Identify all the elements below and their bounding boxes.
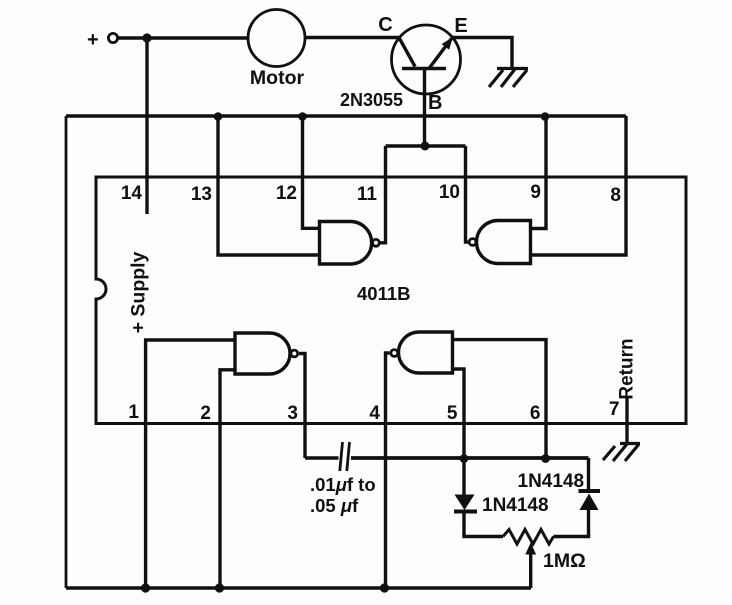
pin 8 lead	[531, 116, 627, 255]
pin 4 lead	[386, 353, 390, 588]
bubble U1a	[373, 239, 380, 246]
junction: base node	[421, 142, 430, 151]
potentiometer R1 resistive element	[503, 530, 554, 545]
junction: supply tap	[142, 33, 151, 42]
pin 13 lead	[218, 116, 320, 255]
+ terminal	[108, 33, 117, 42]
wire: potentiometer to D2	[554, 534, 589, 537]
pin 3 lead	[299, 354, 305, 459]
svg-text:+ Supply: + Supply	[128, 251, 150, 333]
svg-text:10: 10	[439, 182, 460, 203]
motor M1	[248, 10, 305, 67]
ground: pin 7 return	[603, 444, 640, 462]
svg-text:.05 μf: .05 μf	[310, 495, 359, 516]
pin 1 lead	[146, 340, 235, 588]
junction: bottom bus pin 1	[141, 583, 150, 592]
pin 11 lead	[381, 146, 386, 243]
pin 6 lead	[453, 340, 547, 459]
svg-text:3: 3	[287, 403, 298, 424]
NAND gate U1d (pins 5,6 -> 4) mirrored	[399, 332, 453, 373]
svg-text:1MΩ: 1MΩ	[543, 550, 586, 572]
svg-text:6: 6	[530, 403, 541, 424]
svg-text:11: 11	[357, 184, 378, 205]
svg-text:8: 8	[610, 185, 621, 206]
junction: pin 6 node	[541, 454, 550, 463]
junction: bus pin 13	[214, 112, 223, 121]
junction: bottom bus pin 4	[380, 583, 389, 592]
wire: bottom bus	[66, 586, 531, 590]
wire: pin 3 to capacitor	[305, 456, 339, 459]
wire: top bus	[66, 114, 626, 118]
svg-text:+: +	[87, 29, 99, 51]
svg-text:13: 13	[191, 184, 212, 205]
wire: D1 to potentiometer	[464, 534, 503, 537]
wire: base drop	[423, 69, 426, 147]
junction: bus pin 9	[541, 112, 550, 121]
wire: paralleled outputs link	[386, 144, 466, 147]
ground: emitter	[489, 69, 528, 88]
transistor Q1 2N3055	[392, 25, 461, 94]
wire: emitter to ground	[452, 38, 512, 69]
pin 12 lead	[303, 116, 320, 228]
svg-text:2: 2	[200, 403, 211, 424]
svg-text:2N3055: 2N3055	[340, 90, 403, 110]
bubble U1d	[391, 350, 398, 357]
NAND gate U1b (pins 8,9 -> 10) mirrored	[477, 221, 531, 264]
pin 5 lead	[453, 369, 465, 459]
svg-text:1N4148: 1N4148	[482, 495, 549, 516]
svg-text:Return: Return	[617, 338, 638, 399]
pin 9 lead	[531, 116, 547, 229]
pin 2 lead	[220, 370, 235, 588]
svg-text:4: 4	[369, 403, 380, 424]
bubble U1b	[469, 239, 476, 246]
NAND gate U1c (pins 1,2 -> 3)	[235, 333, 290, 374]
pin 10 lead	[466, 146, 469, 242]
capacitor C1	[340, 442, 350, 471]
junction: pin 5 node	[460, 454, 469, 463]
diode D2 1N4148 (up)	[579, 458, 601, 536]
junction: bottom bus pin 2	[215, 583, 224, 592]
svg-text:4011B: 4011B	[357, 283, 411, 304]
wire: +V feed to motor	[117, 36, 249, 39]
bubble U1c	[291, 350, 298, 357]
potentiometer R1 wiper	[525, 543, 536, 589]
svg-text:7: 7	[609, 399, 620, 420]
NAND gate U1a (pins 12,13 -> 11)	[320, 222, 372, 265]
svg-text:1N4148: 1N4148	[518, 471, 585, 492]
svg-text:5: 5	[447, 403, 458, 424]
svg-text:E: E	[454, 15, 467, 37]
svg-text:14: 14	[121, 183, 143, 204]
svg-text:1: 1	[128, 402, 139, 423]
wire: capacitor to diode network	[351, 456, 589, 460]
IC U1 4011B outline	[96, 177, 686, 424]
svg-text:.01μf to: .01μf to	[310, 474, 376, 495]
junction: bus pin 12	[298, 112, 307, 121]
svg-text:Motor: Motor	[250, 67, 305, 89]
pin 7 lead	[625, 397, 628, 443]
wire: motor to collector	[305, 36, 400, 39]
svg-text:B: B	[428, 92, 442, 114]
wire: supply drop to pin 14	[145, 38, 148, 214]
wire: left rail	[65, 116, 68, 588]
svg-text:C: C	[378, 14, 392, 36]
svg-text:9: 9	[530, 182, 541, 203]
svg-text:12: 12	[276, 183, 297, 204]
diode D1 1N4148 (down)	[454, 459, 477, 537]
